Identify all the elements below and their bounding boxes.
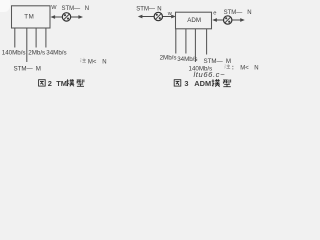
svg-text:3: 3 xyxy=(184,79,188,88)
note: M&lt;N (gray, left figure) xyxy=(80,58,106,66)
svg-text:M<: M< xyxy=(240,66,249,72)
west aggregate wire STM-N (bidirectional) xyxy=(51,15,84,19)
svg-text:e: e xyxy=(213,11,216,17)
svg-text:N: N xyxy=(254,66,258,72)
svg-text:34Mb/s: 34Mb/s xyxy=(46,49,66,56)
svg-text:STM—: STM— xyxy=(62,6,81,12)
svg-text:M<: M< xyxy=(88,59,97,65)
optical line symbol on ADM west wire xyxy=(154,12,162,20)
tributary wire 140Mb/s xyxy=(14,28,16,48)
svg-text:N: N xyxy=(85,6,89,12)
svg-text:ADM: ADM xyxy=(194,79,211,88)
ADM tributary wire 34Mb/s xyxy=(185,29,187,54)
svg-text:ltu66.c~: ltu66.c~ xyxy=(194,70,226,79)
tributary wire 2Mb/s xyxy=(35,28,37,48)
optical line symbol on west wire xyxy=(62,13,70,21)
caption: Fig 2 TM model xyxy=(39,79,84,88)
svg-text:TM: TM xyxy=(24,13,34,20)
svg-text:2Mb/s: 2Mb/s xyxy=(28,49,45,56)
ADM equipment box xyxy=(176,12,212,29)
ADM tributary wire 2Mb/s xyxy=(175,29,177,54)
svg-text:N: N xyxy=(247,10,251,16)
caption: Fig 3 ADM model xyxy=(174,79,231,88)
ADM tributary wire STM-M xyxy=(206,29,208,55)
svg-text:STM—: STM— xyxy=(224,10,243,16)
svg-text:2: 2 xyxy=(48,79,52,88)
svg-text:STM—: STM— xyxy=(204,58,224,65)
tributary wire 34Mb/s xyxy=(45,28,47,48)
svg-text:STM—: STM— xyxy=(136,6,155,12)
scan light patch top-left xyxy=(0,0,10,12)
svg-text:34Mb/s: 34Mb/s xyxy=(177,56,197,63)
svg-text:W: W xyxy=(51,5,57,11)
svg-text:N: N xyxy=(157,6,161,12)
ADM tributary wire 140Mb/s (longer) xyxy=(194,29,196,62)
svg-text:STM—: STM— xyxy=(14,66,34,73)
svg-text:M: M xyxy=(36,66,41,73)
west line wire of ADM (bidirectional) xyxy=(138,15,176,19)
svg-text:TM: TM xyxy=(56,79,67,88)
svg-text:2Mb/s: 2Mb/s xyxy=(160,54,177,61)
svg-text:M: M xyxy=(226,58,231,65)
note: M&lt;N (gray, right figure) xyxy=(225,64,259,72)
optical line symbol on ADM east wire xyxy=(224,16,232,24)
svg-text:ADM: ADM xyxy=(187,17,201,24)
svg-text:N: N xyxy=(102,59,106,65)
svg-text:140Mb/s: 140Mb/s xyxy=(2,49,26,56)
tributary wire STM-M (longer) xyxy=(26,28,28,62)
TM equipment box xyxy=(12,6,51,28)
east line wire of ADM (bidirectional) xyxy=(212,18,245,22)
